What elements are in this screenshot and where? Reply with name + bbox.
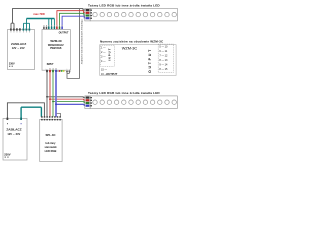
wire: black V+ from top power supply to top LED strip connector <box>11 9 85 29</box>
svg-text:max 70W: max 70W <box>33 12 45 16</box>
svg-text:3 —: 3 — <box>101 56 106 59</box>
svg-text:7 — 12: 7 — 12 <box>159 55 168 58</box>
wire: blue from WZM output to top strip <box>62 16 85 27</box>
svg-text:lub inny: lub inny <box>46 141 56 145</box>
svg-text:8 — 13: 8 — 13 <box>159 59 168 62</box>
wire: teal from bottom supply to SPL <box>21 107 41 118</box>
svg-text:OUTPUT: OUTPUT <box>148 48 152 73</box>
svg-text:INPUT: INPUT <box>47 64 54 66</box>
svg-text:6 — 11: 6 — 11 <box>159 50 167 53</box>
svg-text:sterownik: sterownik <box>44 145 57 149</box>
svg-text:LED RGB: LED RGB <box>45 149 57 153</box>
input pin list <box>100 45 114 66</box>
amplifier U1 WZM-3C <box>42 25 70 73</box>
svg-text:ZASILACZ: ZASILACZ <box>6 128 21 132</box>
svg-text:15 —: 15 — <box>101 69 107 72</box>
LED strip LS2 (bottom) <box>85 91 177 109</box>
wire: vertical black branch to WZM +- with loop <box>66 9 80 79</box>
controller U2 SPL-3C <box>40 116 62 161</box>
svg-text:Taśmy LED RGB lub inne źródł: Taśmy LED RGB lub inne źródła światła LE… <box>88 91 160 95</box>
svg-text:9 — 14: 9 — 14 <box>159 64 168 67</box>
svg-text:OUTPUT: OUTPUT <box>59 32 69 35</box>
svg-text:Numery zacisków na obudowie WZ: Numery zacisków na obudowie WZM-3C <box>100 40 164 44</box>
svg-text:Obudowa wzmacniacza strona zac: Obudowa wzmacniacza strona zacisków <box>80 20 83 65</box>
svg-text:12V ... 24V: 12V ... 24V <box>12 46 25 50</box>
svg-text:4 —: 4 — <box>101 60 106 63</box>
wire: green from WZM output to top strip <box>60 13 85 27</box>
wire: teal V+ from top power supply to WZM input bracket <box>27 18 55 20</box>
wire: black input from WZM to SPL with branch to bottom strip <box>46 72 48 117</box>
svg-text:WZM-3C: WZM-3C <box>50 39 62 43</box>
terminal numbering panel for WZM-3C <box>100 40 176 76</box>
wire: green input <box>52 72 54 117</box>
wire: black from bottom supply to SPL <box>7 103 44 118</box>
svg-text:SPL-3C: SPL-3C <box>46 133 56 137</box>
wire: blue input <box>55 72 57 117</box>
svg-text:WZM-3C: WZM-3C <box>122 46 138 51</box>
svg-text:5 — 10: 5 — 10 <box>159 46 168 49</box>
power supply PS2 (bottom left ZASILACZ) <box>3 118 27 160</box>
svg-text:Taśmy LED RGB lub inne źródł: Taśmy LED RGB lub inne źródła światła LE… <box>88 3 160 7</box>
svg-text:OUTPUT: OUTPUT <box>106 72 117 76</box>
power supply PS1 (top left ZASILACZ) <box>8 28 35 69</box>
wire: gray jumper at SPL <box>57 113 61 117</box>
LED strip LS1 (top) <box>85 3 177 21</box>
svg-text:1 —: 1 — <box>101 47 106 50</box>
svg-text:ZASILACZ: ZASILACZ <box>11 42 26 46</box>
svg-text:WZMACNIACZ: WZMACNIACZ <box>48 44 64 47</box>
wire: red input <box>49 72 51 117</box>
indicator LEDs <box>59 70 61 72</box>
svg-text:PWM RGB: PWM RGB <box>50 48 62 50</box>
svg-text:230V: 230V <box>4 152 10 156</box>
svg-text:230V: 230V <box>9 63 15 66</box>
svg-text:INPUT: INPUT <box>108 47 112 61</box>
svg-text:8 — 15: 8 — 15 <box>159 68 168 71</box>
svg-text:12V ... 24V: 12V ... 24V <box>7 132 20 136</box>
svg-text:2 —: 2 — <box>101 51 106 54</box>
wire: red from WZM output to top strip <box>57 11 85 28</box>
